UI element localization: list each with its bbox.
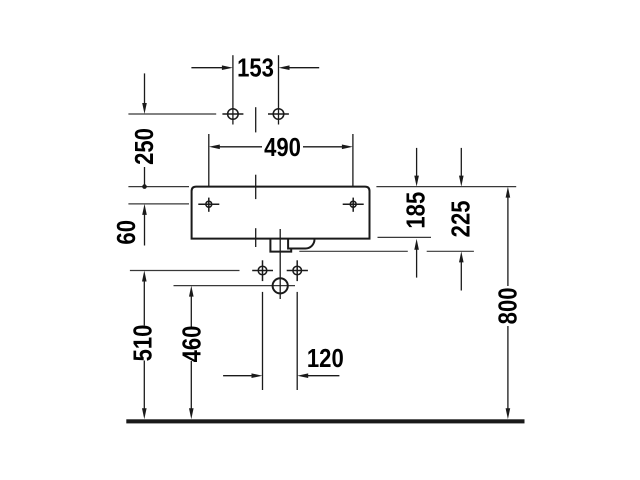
svg-text:490: 490 bbox=[264, 134, 301, 163]
svg-text:250: 250 bbox=[131, 128, 160, 165]
svg-text:153: 153 bbox=[237, 54, 274, 83]
svg-text:60: 60 bbox=[112, 220, 141, 245]
svg-text:185: 185 bbox=[402, 192, 431, 229]
svg-text:225: 225 bbox=[447, 200, 476, 237]
svg-text:510: 510 bbox=[129, 325, 158, 362]
svg-text:460: 460 bbox=[178, 326, 207, 363]
svg-text:120: 120 bbox=[307, 344, 344, 373]
svg-text:800: 800 bbox=[494, 287, 523, 324]
